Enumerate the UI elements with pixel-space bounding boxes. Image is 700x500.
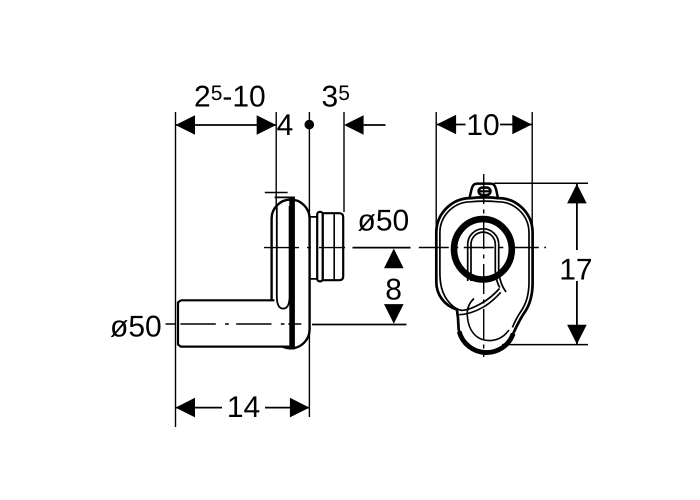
reference line bottom (17) [502, 344, 588, 346]
right view: extension line left [435, 112, 437, 253]
dimension 2.5-10 arrow left [176, 115, 196, 135]
right view vertical centerline [483, 174, 485, 357]
dot terminator [305, 120, 315, 130]
inner U outer [468, 229, 506, 292]
socket rib [317, 212, 323, 282]
pipe centerline [166, 323, 302, 325]
flange top edge [275, 196, 295, 198]
dimension 17 line [576, 184, 578, 344]
flange plate [289, 197, 295, 349]
inner U inner [471, 232, 500, 287]
socket axis reference line [353, 247, 411, 249]
dimension 14 arrow left [176, 398, 196, 418]
socket end rib line [333, 213, 335, 280]
wall tick mark [265, 192, 288, 194]
right view outer outline [436, 197, 532, 352]
reference line top (17) [494, 182, 588, 184]
svg-text:8: 8 [385, 274, 402, 307]
dimension 10 arrow right [512, 115, 532, 135]
extension line left (wall / pipe end) [175, 112, 177, 427]
svg-text:10: 10 [466, 109, 499, 142]
right view inner outline with sweep [440, 201, 529, 327]
inner bowl curve [467, 299, 509, 341]
pipe mask [180, 301, 290, 345]
dimension 8 arrow up [384, 249, 404, 269]
mounting lug [469, 184, 498, 200]
svg-text:ø50: ø50 [110, 311, 162, 344]
svg-text:14: 14 [227, 391, 260, 424]
dimension 10 line [436, 124, 532, 126]
right view horizontal centerline [419, 247, 546, 249]
drain ring [454, 219, 512, 279]
dimension 2.5-10 arrow right [257, 115, 277, 135]
dimension 8 arrow down [384, 304, 404, 324]
dimension 17 arrow top [567, 184, 587, 204]
extension line at socket end [343, 112, 345, 212]
body capsule outline [272, 200, 310, 349]
svg-text:4: 4 [277, 109, 294, 142]
sweep lower line [459, 292, 501, 314]
inner trap outline [277, 206, 290, 309]
socket barrel [323, 213, 343, 280]
svg-text:25-10: 25-10 [194, 81, 266, 114]
extension line at flange back [275, 112, 277, 206]
dimension 3.5 arrow [344, 115, 364, 135]
pipe outline [178, 300, 289, 346]
lug slot [479, 188, 491, 195]
right view: extension line right [531, 112, 533, 245]
dimension 17 arrow bottom [567, 325, 587, 345]
lug slot mid line [480, 190, 490, 192]
dimension 2.5-10 line [176, 124, 277, 126]
bottom thick arc [459, 332, 513, 353]
dimension 10 arrow left [437, 115, 457, 135]
svg-text:ø50: ø50 [358, 204, 410, 237]
dimension 3.5 tail line [364, 124, 386, 126]
dimension 14 arrow right [290, 398, 310, 418]
pipe axis reference line [312, 324, 407, 326]
dimension 14 line [176, 407, 310, 409]
extension line through body right edge [308, 112, 310, 417]
socket neck [310, 217, 318, 279]
socket centerline [264, 247, 345, 249]
svg-text:17: 17 [559, 254, 592, 287]
